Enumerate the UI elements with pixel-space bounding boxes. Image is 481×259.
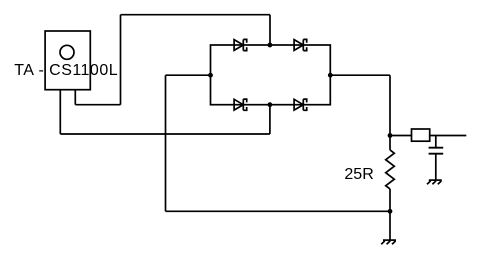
junction bottom node <box>388 209 393 214</box>
wire output right <box>430 135 467 137</box>
wire from bridge right <box>330 74 390 76</box>
svg-text:TA - CS1100L: TA - CS1100L <box>14 62 117 79</box>
wire resistor bottom lead <box>389 189 391 211</box>
wire bottom-center horizontal <box>60 133 270 135</box>
junction bridge left <box>208 73 213 78</box>
diode D1 top-left <box>234 39 247 50</box>
diode D3 bottom-left <box>234 99 247 110</box>
wire to bottom ground <box>389 211 391 240</box>
wire rise to bridge bottom <box>269 105 271 134</box>
wire left riser <box>120 15 122 105</box>
transformer circle mark <box>60 45 74 59</box>
wire capacitor to ground <box>435 154 437 180</box>
wire pin2 horizontal <box>75 104 120 106</box>
wire top rail <box>121 14 271 16</box>
capacitor C1 plates <box>429 148 444 154</box>
junction output node <box>388 133 393 138</box>
wire right drop <box>389 75 391 135</box>
wire to output box <box>390 135 412 137</box>
svg-text:25R: 25R <box>344 166 373 183</box>
diode D2 top-right <box>294 39 307 50</box>
junction bridge right <box>328 73 333 78</box>
bridge outline <box>211 45 331 105</box>
diode D4 bottom-right <box>294 99 307 110</box>
junction bridge top <box>268 43 273 48</box>
ground right <box>427 180 442 184</box>
wire resistor top lead <box>389 136 391 150</box>
wire top drop to bridge <box>269 15 271 45</box>
wire pin1 stub <box>59 90 61 134</box>
junction bridge bottom <box>268 102 273 107</box>
transformer TA body <box>45 31 90 90</box>
wire pin2 stub <box>74 90 76 105</box>
resistor 25R zigzag <box>386 150 395 189</box>
wire long left vertical <box>165 75 167 211</box>
wire to bridge left <box>166 74 211 76</box>
wire bottom rail <box>166 210 391 212</box>
output box component <box>412 129 430 141</box>
ground bottom <box>381 240 396 244</box>
capacitor C1 stub <box>435 136 437 148</box>
